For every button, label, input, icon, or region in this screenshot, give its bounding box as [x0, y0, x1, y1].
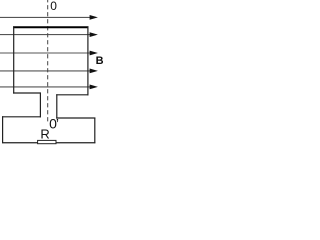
wire bottom-left horizontal: [2, 142, 38, 144]
wire top-left horizontal: [2, 116, 41, 118]
svg-text:R: R: [40, 126, 49, 141]
svg-text:B: B: [96, 55, 103, 67]
wire top-right horizontal: [56, 117, 95, 119]
wire bottom-right horizontal: [56, 142, 95, 144]
field line B5: [0, 85, 98, 90]
axis OO' dashed: [47, 0, 49, 122]
coil right side: [87, 26, 89, 95]
field line B4: [0, 69, 98, 74]
wire right vertical: [94, 118, 96, 144]
resistor R box: [38, 140, 56, 143]
svg-text:0: 0: [50, 0, 57, 13]
wire right lead: [56, 94, 58, 118]
coil left side: [13, 26, 15, 93]
field line B1: [0, 15, 98, 20]
coil bottom-left side: [13, 92, 41, 94]
coil bottom-right side: [56, 94, 88, 96]
coil top side (bold): [13, 26, 88, 28]
field line B2: [0, 32, 98, 37]
wire left lead: [39, 93, 41, 118]
wire left vertical: [2, 116, 4, 143]
field line B3: [0, 51, 98, 56]
